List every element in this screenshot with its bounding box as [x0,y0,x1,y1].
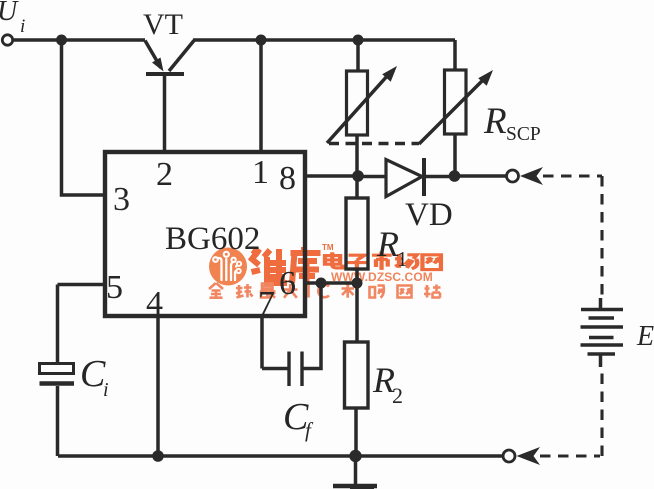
svg-text:8: 8 [279,160,296,197]
svg-text:i: i [103,379,109,401]
pin number 3 [113,181,130,218]
wire: pin 5 to Ci [58,285,106,364]
arrowhead at top terminal [520,167,543,185]
potentiometer RP1 [327,66,397,143]
svg-text:1: 1 [252,154,269,191]
battery E [581,298,624,367]
svg-text:3: 3 [113,181,130,218]
svg-text:E: E [636,321,654,352]
svg-text:2: 2 [156,156,173,193]
pin number 7 [258,285,275,322]
arrowhead at bottom terminal [517,447,541,465]
wire: node to output terminal [455,174,507,178]
wire: RSCP bottom to node [453,134,457,176]
junction: RSCP bottom node [449,170,461,182]
svg-text:SCP: SCP [506,124,541,145]
wire: top node to RP1 [356,40,360,71]
svg-text:TM: TM [322,243,334,252]
pin number 4 [146,285,163,322]
pin number 5 [106,269,123,306]
wire: R1 to R2 [355,269,359,342]
wire: R2 to ground node [354,408,358,456]
label R1 [376,224,408,271]
label Cf [283,396,314,442]
wire: input terminal to VT emitter [13,38,145,42]
pin number 8 [279,160,296,197]
output terminal top [507,170,519,182]
svg-text:i: i [20,16,25,37]
wire: pin 6 to divider [305,281,357,285]
svg-text:1: 1 [397,247,408,271]
junction: ground node [349,450,361,462]
label VT [143,8,183,41]
label BG602 [165,221,260,257]
pin number 2 [156,156,173,193]
dashed link: wiper to wiper [329,142,419,146]
svg-text:R: R [483,101,507,142]
wire: pin 1 [259,40,263,152]
IC BG602 [105,152,305,316]
svg-text:U: U [0,0,19,27]
label Ui [0,0,25,37]
wire: input node down and right to pin 3 [62,40,106,195]
junction: Cf tap node [316,278,327,289]
wire: pin 8 [305,174,358,178]
svg-text:4: 4 [146,285,163,322]
svg-text:6: 6 [279,265,296,302]
junction: pin 1 node [256,35,267,46]
resistor R2 [345,342,369,408]
label Ci [80,353,109,401]
resistor R1 [346,198,368,269]
label E [636,321,654,352]
dashed wire: battery - to bottom terminal [540,367,602,456]
junction: pin 4 node [152,450,164,462]
svg-text:f: f [305,418,314,442]
transistor VT [145,41,194,153]
capacitor Cf [262,283,321,386]
watermark text "Wei Ku" (drawn glyphs) [252,247,321,283]
watermark logo circle [209,248,247,286]
label R2 [372,360,403,408]
junction: RP1 top node [353,35,364,46]
junction: node 8 [352,170,364,182]
junction: divider node at R1/R2 [352,278,363,289]
potentiometer RSCP [419,70,493,144]
capacitor Ci [40,364,75,457]
watermark text "dian zi shi chang wang" (drawn glyphs) [325,251,441,269]
label RSCP [483,101,541,145]
wire: VT collector to top right corner, down to RSCP [193,40,455,70]
wire: RP1 bottom to R1 top [355,135,359,198]
diode VD [358,158,455,197]
svg-text:5: 5 [106,269,123,306]
pin number 1 [252,154,269,191]
svg-text:2: 2 [392,383,403,408]
svg-text:VT: VT [143,8,183,41]
bottom output terminal [503,450,515,462]
junction: input node [56,35,67,46]
bottom wire [58,454,503,458]
svg-text:BG602: BG602 [165,221,260,257]
wire: pin 4 [156,316,160,456]
pin number 6 [279,265,296,302]
ground [333,456,377,489]
dashed wire: top terminal to battery + [543,176,602,298]
svg-text:VD: VD [405,197,453,233]
input terminal [2,35,12,45]
label VD [405,197,453,233]
svg-text:R: R [376,224,399,264]
watermark tagline (drawn glyphs) [209,283,441,298]
